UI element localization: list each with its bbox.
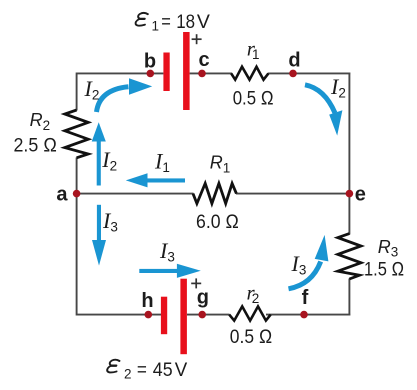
- svg-text:h: h: [141, 290, 153, 312]
- battery E1 negative plate (short red bar): [163, 53, 169, 92]
- wire: middle branch, left segment (node a to R1): [77, 193, 194, 195]
- svg-text:g: g: [197, 287, 209, 309]
- wire: right side, bottom segment (R3 to bottom corner): [348, 279, 350, 316]
- resistor R3 (1.5 ohm) zigzag, right branch: [338, 234, 361, 279]
- current arrow I2 curved, top-right (from node d, turning down): [305, 85, 342, 136]
- svg-text:2: 2: [124, 367, 132, 382]
- wire: left side, top segment (corner to R2): [76, 73, 78, 111]
- svg-text:f: f: [302, 287, 309, 309]
- svg-text:a: a: [56, 183, 68, 205]
- svg-text:0.5 Ω: 0.5 Ω: [233, 88, 274, 110]
- wire: right side, top segment (corner through node e to R3): [348, 73, 350, 235]
- current arrow I2 straight up (left branch, below R2): [92, 122, 106, 185]
- battery E2 positive plate (tall red bar): [180, 279, 187, 355]
- svg-text:6.0 Ω: 6.0 Ω: [196, 211, 239, 233]
- svg-text:c: c: [198, 49, 209, 71]
- svg-text:2.5 Ω: 2.5 Ω: [14, 135, 58, 157]
- svg-text:V: V: [197, 11, 210, 33]
- svg-text:V: V: [175, 359, 188, 381]
- node h (junction dot): [145, 311, 153, 319]
- svg-text:d: d: [288, 49, 300, 71]
- node g (junction dot): [198, 311, 206, 319]
- wire: left side, bottom segment (R2 through node a to bottom corner): [76, 158, 78, 316]
- battery E1 plus sign: [192, 34, 202, 44]
- label: EMF E2 = 45 V: [107, 359, 188, 382]
- wire: top side, right segment (battery E1 plus plate to corner, through c, r1, d): [190, 72, 232, 74]
- battery E2 negative plate (short red bar): [161, 297, 167, 335]
- wire: middle branch, right segment (R1 to node e): [236, 193, 349, 195]
- battery E1 positive plate (tall red bar): [183, 32, 190, 110]
- node b (junction dot): [147, 70, 155, 78]
- svg-text:b: b: [144, 50, 156, 72]
- svg-text:e: e: [355, 183, 366, 205]
- svg-text:0.5 Ω: 0.5 Ω: [230, 326, 272, 348]
- battery E2 plus sign: [191, 278, 201, 288]
- wire: bottom side, right segment (battery E2 through g, r2, f to corner): [187, 314, 230, 316]
- label: EMF E1 = 18 V: [135, 11, 210, 34]
- node f (junction dot): [300, 311, 308, 319]
- svg-text:=: =: [137, 359, 147, 381]
- svg-text:18: 18: [176, 11, 195, 33]
- resistor R1 (6.0 ohm) zigzag, middle branch: [193, 183, 236, 203]
- current arrow I2 curved, top-left (into node b): [97, 78, 153, 112]
- current arrow I1 straight left (middle branch): [126, 173, 185, 187]
- node e (junction dot): [346, 190, 354, 198]
- svg-text:1.5 Ω: 1.5 Ω: [364, 258, 404, 280]
- svg-text:=: =: [161, 11, 171, 33]
- current arrow I3 straight down (left branch, below node a): [92, 205, 106, 266]
- wire: top side, segment from r1 to top-right corner: [268, 72, 350, 74]
- wire: top side, left segment (corner to battery E1 minus plate, through node b): [77, 72, 164, 74]
- node c (junction dot): [198, 70, 206, 78]
- svg-text:45: 45: [153, 359, 173, 381]
- wire: bottom side, left segment (corner through node h to battery E2): [77, 314, 161, 316]
- resistor r1 (0.5 ohm) zigzag, top branch: [231, 67, 268, 80]
- resistor R2 (2.5 ohm) zigzag, left branch: [65, 110, 88, 158]
- wire: bottom side, segment from r2 to bottom-right corner: [266, 314, 350, 316]
- svg-text:1: 1: [152, 19, 160, 34]
- resistor r2 (0.5 ohm) zigzag, bottom branch: [229, 306, 271, 320]
- current arrow I3 straight right (bottom branch, above battery E2): [139, 264, 201, 278]
- node d (junction dot): [289, 70, 297, 78]
- current arrow I3 curved, bottom-right (from node f up toward R3): [289, 235, 329, 289]
- node a (junction dot): [73, 190, 81, 198]
